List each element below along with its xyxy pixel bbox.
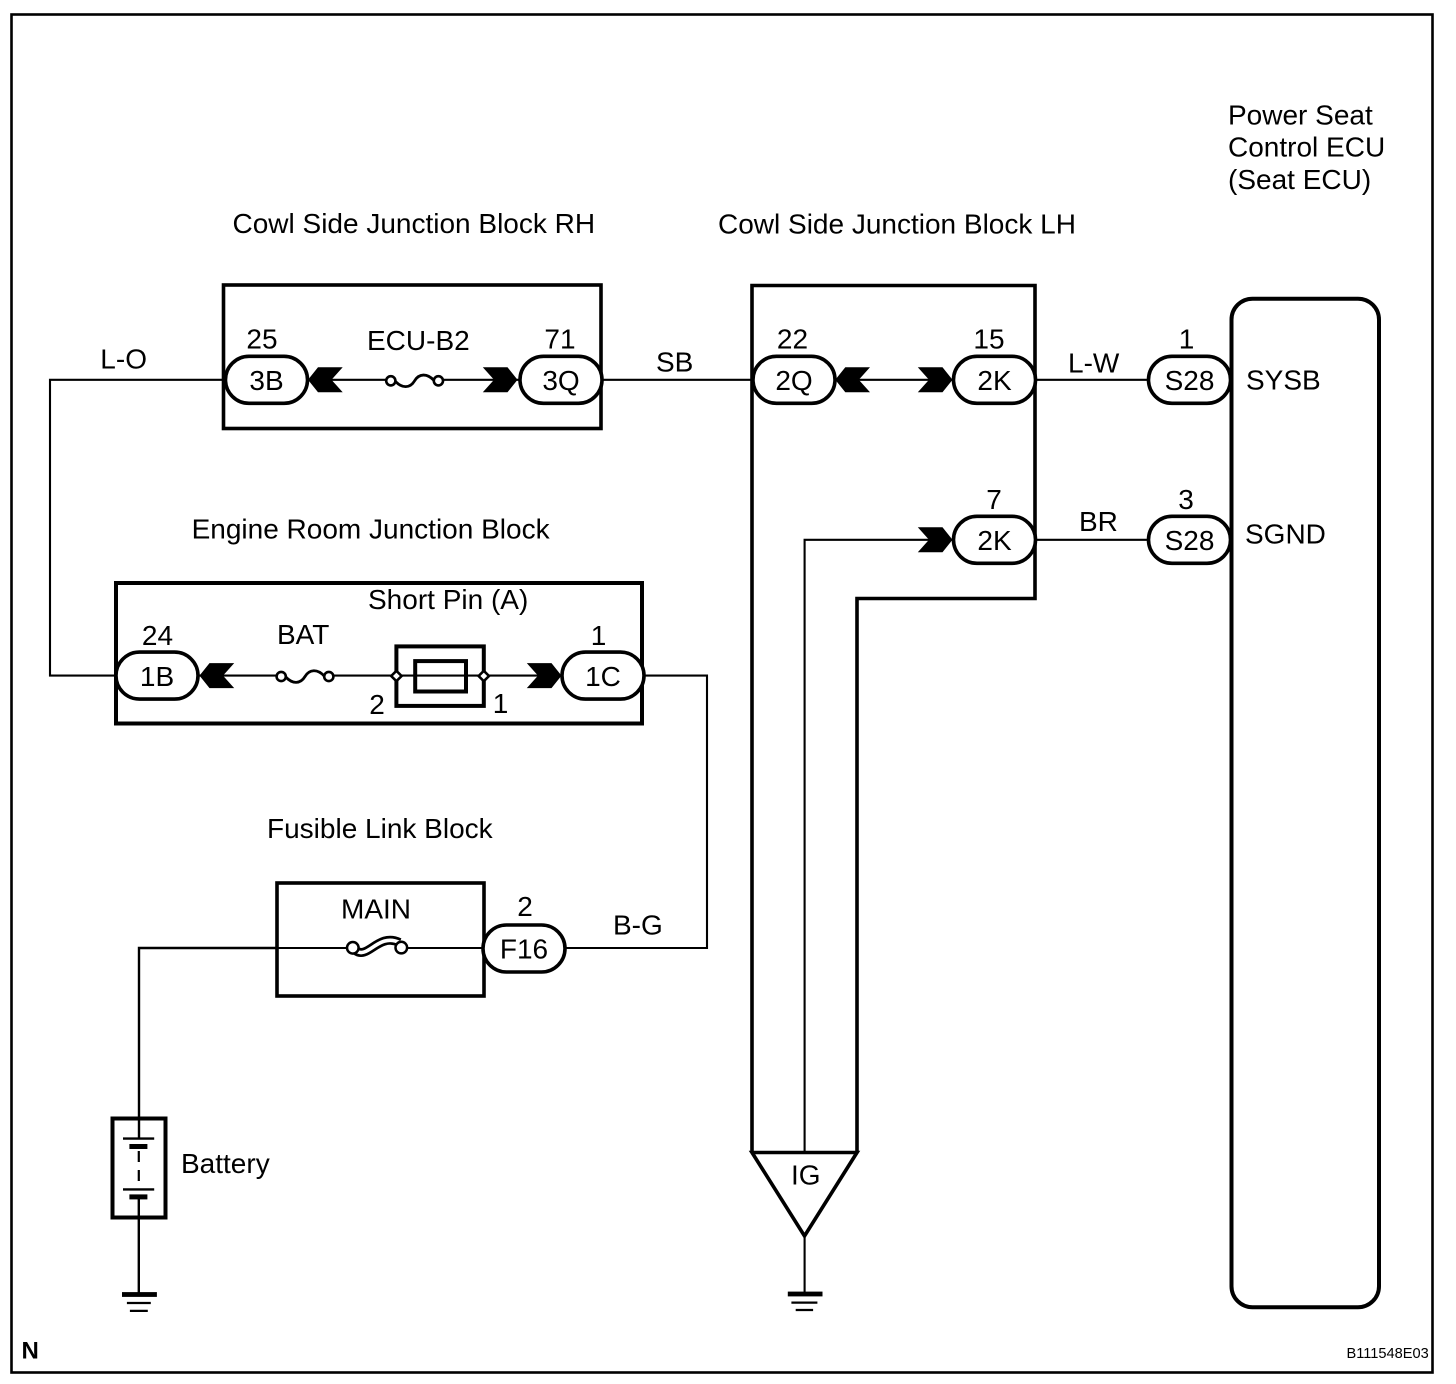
wire SB from 3Q to 2Q <box>601 379 754 381</box>
wire ER block 1B arrow to BAT fuse <box>198 675 277 677</box>
svg-text:ECU-B2: ECU-B2 <box>367 325 470 356</box>
svg-text:F16: F16 <box>500 934 548 965</box>
connector oval S28 pin3 <box>1149 516 1231 563</box>
connector oval 2K pin7 <box>954 516 1036 563</box>
fuse ECU-B2 <box>386 375 443 387</box>
short pin terminal diamond 2 <box>391 671 401 681</box>
svg-text:L-W: L-W <box>1068 348 1120 379</box>
connector oval 3B <box>226 356 308 403</box>
svg-text:BAT: BAT <box>277 619 329 650</box>
wire IG feed from triangle to 2K pin7 arrow <box>805 540 953 1151</box>
svg-text:S28: S28 <box>1165 525 1215 556</box>
battery <box>113 1119 166 1218</box>
box Engine Room Junction Block <box>116 583 642 724</box>
svg-text:S28: S28 <box>1165 365 1215 396</box>
wire BR from 2K pin7 to S28 pin3 <box>1035 539 1150 541</box>
short pin (A) inner body <box>415 661 466 691</box>
wire fusible box left to MAIN link <box>277 947 348 949</box>
arrow into 2Q <box>835 367 870 392</box>
svg-text:BR: BR <box>1079 506 1118 537</box>
connector oval S28 pin1 <box>1149 356 1231 403</box>
label Power Seat Control ECU (Seat ECU) <box>1228 99 1385 195</box>
svg-text:1C: 1C <box>585 661 621 692</box>
svg-text:22: 22 <box>777 324 808 355</box>
wire fusible box to battery <box>139 948 277 1139</box>
svg-text:7: 7 <box>986 484 1002 515</box>
svg-text:3B: 3B <box>249 365 283 396</box>
svg-text:2K: 2K <box>977 525 1012 556</box>
svg-text:Battery: Battery <box>181 1148 270 1179</box>
short pin (A) outer housing <box>396 646 483 706</box>
wire L-O from 3B to 1B <box>50 380 226 676</box>
svg-text:1: 1 <box>1179 324 1195 355</box>
svg-text:3: 3 <box>1178 484 1194 515</box>
fusible link MAIN <box>347 940 407 953</box>
wire MAIN link to F16 <box>406 947 484 949</box>
arrow into 1B <box>200 663 235 688</box>
svg-text:SGND: SGND <box>1245 519 1326 550</box>
svg-text:25: 25 <box>246 324 277 355</box>
svg-text:Cowl Side Junction Block LH: Cowl Side Junction Block LH <box>718 209 1076 240</box>
wire 3B arrow to ECU-B2 fuse <box>307 379 387 381</box>
svg-text:MAIN: MAIN <box>341 894 411 925</box>
connector oval 2Q <box>753 356 835 403</box>
svg-text:Engine Room Junction Block: Engine Room Junction Block <box>192 514 551 545</box>
svg-text:2: 2 <box>369 689 385 720</box>
connector oval 3Q <box>520 356 602 403</box>
arrow into 3B <box>308 367 343 392</box>
wire 2Q to 2K <box>833 379 954 381</box>
connector oval F16 <box>483 925 565 972</box>
svg-text:B111548E03: B111548E03 <box>1347 1346 1429 1362</box>
svg-text:1B: 1B <box>140 661 174 692</box>
svg-text:1: 1 <box>493 688 509 719</box>
svg-text:L-O: L-O <box>100 344 147 375</box>
ECU box (Power Seat Control ECU) <box>1232 299 1380 1307</box>
svg-text:Control ECU: Control ECU <box>1228 132 1385 163</box>
wire battery negative to ground <box>138 1197 140 1293</box>
box Fusible Link Block <box>277 883 484 996</box>
svg-text:24: 24 <box>142 620 173 651</box>
svg-text:N: N <box>22 1338 39 1365</box>
wire IG triangle apex to ground <box>804 1234 806 1292</box>
ground (battery) <box>122 1292 157 1311</box>
box Cowl Side Junction Block RH <box>224 285 602 429</box>
wire B-G from 1C to F16 <box>566 676 707 948</box>
svg-text:2: 2 <box>517 891 533 922</box>
box Cowl Side Junction Block LH <box>752 286 1035 1153</box>
svg-text:3Q: 3Q <box>542 365 579 396</box>
IG triangle <box>752 1153 857 1237</box>
arrow into 3Q <box>483 367 518 392</box>
svg-text:2Q: 2Q <box>775 365 812 396</box>
connector oval 1B <box>116 652 198 699</box>
svg-text:Fusible Link Block: Fusible Link Block <box>267 813 494 844</box>
wire L-W from 2K to S28 <box>1035 379 1150 381</box>
arrow into 2K pin7 <box>918 527 953 552</box>
ground (IG) <box>788 1292 823 1310</box>
svg-text:Power Seat: Power Seat <box>1228 99 1373 130</box>
svg-text:Short Pin (A): Short Pin (A) <box>368 584 528 615</box>
svg-text:B-G: B-G <box>613 910 663 941</box>
svg-text:SB: SB <box>656 347 693 378</box>
connector oval 1C <box>562 652 644 699</box>
arrow into 2K pin15 <box>918 367 953 392</box>
arrow into 1C <box>527 663 562 688</box>
fuse BAT <box>277 671 334 683</box>
svg-text:SYSB: SYSB <box>1246 365 1321 396</box>
svg-text:15: 15 <box>973 324 1004 355</box>
svg-text:1: 1 <box>591 620 607 651</box>
wire BAT fuse to short pin to 1C arrow <box>334 675 561 677</box>
connector oval 2K pin15 <box>954 356 1036 403</box>
svg-text:71: 71 <box>544 324 575 355</box>
svg-text:IG: IG <box>791 1160 821 1191</box>
svg-text:2K: 2K <box>977 365 1012 396</box>
short pin terminal diamond 1 <box>479 671 489 681</box>
svg-text:Cowl Side Junction Block RH: Cowl Side Junction Block RH <box>233 208 596 239</box>
wire ECU-B2 fuse to 3Q arrow <box>442 379 519 381</box>
svg-text:(Seat ECU): (Seat ECU) <box>1228 164 1371 195</box>
